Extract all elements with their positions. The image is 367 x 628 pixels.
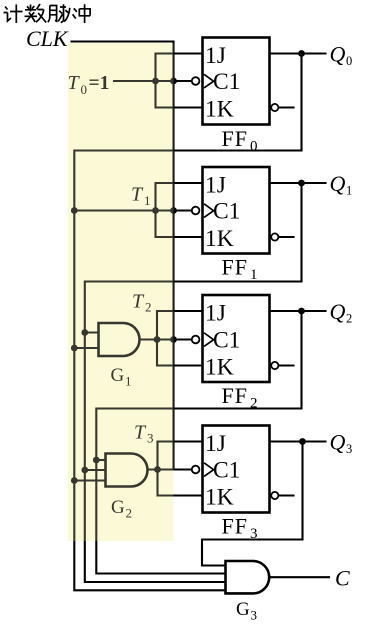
node CLK-FF2 xyxy=(170,336,177,343)
node G2 in middle xyxy=(81,467,88,474)
wire FF0 JK bracket xyxy=(156,54,203,108)
svg-text:FF: FF xyxy=(222,383,248,408)
wire FF1 Q output xyxy=(270,182,326,184)
AND gate G3 xyxy=(226,561,270,593)
svg-text:Q: Q xyxy=(330,171,346,196)
node Q2 out xyxy=(298,308,305,315)
svg-text:C: C xyxy=(335,566,350,591)
highlight tint overlay xyxy=(68,43,174,541)
wire Q3 feedback to G3 xyxy=(202,442,303,566)
node G2 in bottom xyxy=(71,477,78,484)
svg-text:2: 2 xyxy=(250,396,258,412)
svg-text:2: 2 xyxy=(346,312,352,326)
wire FF2 Qbar stub xyxy=(278,364,293,366)
node Q3 out xyxy=(299,438,306,445)
wire G2 top input xyxy=(96,459,105,461)
wire FF1 JK bracket xyxy=(156,183,203,237)
svg-text:1J: 1J xyxy=(205,43,226,69)
wire Q1 feedback down-left xyxy=(85,183,302,582)
node G1 in top xyxy=(81,329,88,336)
wire FF3 Q output xyxy=(270,440,326,442)
node T0-bracket xyxy=(152,78,159,85)
wire G2 output to FF3 C1 xyxy=(148,468,192,470)
svg-text:1K: 1K xyxy=(205,226,234,252)
svg-text:1J: 1J xyxy=(205,173,226,199)
flip-flop FF0 xyxy=(192,38,279,155)
wire FF3 JK bracket xyxy=(158,442,203,496)
AND gate G2 xyxy=(106,454,148,487)
wire FF1 Qbar stub xyxy=(278,236,293,238)
node Q0 out xyxy=(298,50,305,57)
wire Q0 feedback down-left xyxy=(74,54,301,591)
node G2 out bracket xyxy=(154,466,161,473)
wire FF0 Q output xyxy=(270,52,326,54)
svg-text:1: 1 xyxy=(250,267,258,283)
svg-text:Q: Q xyxy=(330,299,346,324)
svg-text:0: 0 xyxy=(346,54,352,68)
svg-text:1K: 1K xyxy=(205,354,234,380)
svg-text:Q: Q xyxy=(330,42,346,67)
svg-text:3: 3 xyxy=(346,442,352,456)
svg-text:FF: FF xyxy=(222,514,248,539)
node G1 out bracket xyxy=(154,336,161,343)
wire G3 output xyxy=(269,576,329,578)
svg-text:1: 1 xyxy=(346,184,352,198)
wire G1 output to FF2 C1 xyxy=(140,338,192,340)
wire CLK vertical xyxy=(172,42,174,470)
wire FF0 Qbar stub xyxy=(278,106,293,108)
svg-text:G: G xyxy=(236,599,250,620)
svg-text:C1: C1 xyxy=(213,458,240,484)
flip-flop FF2 xyxy=(192,295,279,412)
wire T0 line to FF0 C1 xyxy=(114,80,192,82)
AND gate G1 xyxy=(99,323,140,356)
node T1-bracket xyxy=(152,207,159,214)
node CLK-FF1 xyxy=(170,207,177,214)
wire G2 bottom input xyxy=(74,479,105,481)
svg-text:3: 3 xyxy=(251,608,258,623)
wire FF2 JK bracket xyxy=(157,311,203,366)
svg-text:FF: FF xyxy=(222,255,248,280)
wire CLK horizontal xyxy=(72,40,174,42)
wire FF2 Q output xyxy=(270,310,326,312)
wire Q2 feedback down-left xyxy=(96,311,301,574)
svg-text:1J: 1J xyxy=(205,431,226,457)
flip-flop FF3 xyxy=(192,426,279,543)
svg-text:FF: FF xyxy=(222,126,248,151)
svg-text:1K: 1K xyxy=(205,96,234,122)
node Q1 out xyxy=(298,180,305,187)
svg-text:3: 3 xyxy=(250,526,258,542)
svg-text:CLK: CLK xyxy=(26,26,69,51)
node CLK-FF0 xyxy=(170,78,177,85)
wire FF3 Qbar stub xyxy=(278,494,293,496)
svg-text:1K: 1K xyxy=(205,484,234,510)
svg-text:Q: Q xyxy=(330,430,346,455)
wire T1 line to FF1 C1 xyxy=(74,209,192,211)
node G1 in bottom xyxy=(71,345,78,352)
node T1 tap xyxy=(71,207,78,214)
svg-text:1J: 1J xyxy=(205,301,226,327)
wire G2 middle input xyxy=(85,469,106,471)
node G2 in top xyxy=(93,457,100,464)
svg-text:C1: C1 xyxy=(213,328,240,354)
svg-text:C1: C1 xyxy=(213,69,240,95)
label counting pulse (Chinese) xyxy=(4,4,91,23)
wire G1 bottom input xyxy=(74,347,98,349)
wire G1 top input xyxy=(85,331,99,333)
flip-flop FF1 xyxy=(192,167,279,283)
svg-text:C1: C1 xyxy=(213,199,240,225)
svg-text:0: 0 xyxy=(250,139,258,155)
highlighted region xyxy=(68,43,174,541)
